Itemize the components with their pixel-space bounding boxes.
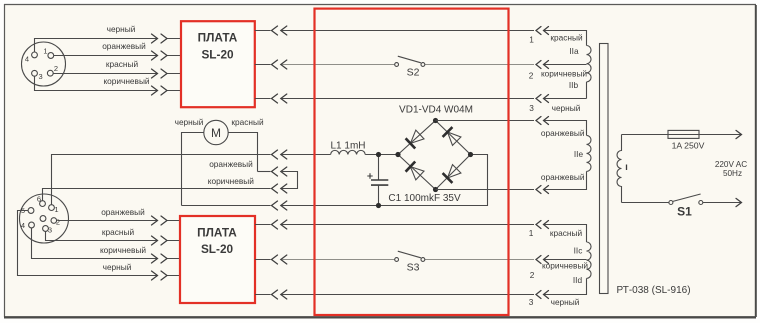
connector pair on AC1 wire xyxy=(536,117,549,125)
transformer T1 windings IIc IId (bottom secondary) xyxy=(587,242,592,278)
svg-text:3: 3 xyxy=(39,72,43,81)
wire pin1 to board1 (orange) xyxy=(54,55,180,57)
junction bridge left node xyxy=(395,152,400,157)
svg-text:красный: красный xyxy=(550,33,583,43)
svg-text:IIe: IIe xyxy=(574,149,584,159)
svg-text:6: 6 xyxy=(37,195,41,204)
connector pair at board2 out1 xyxy=(272,220,287,229)
svg-text:черный: черный xyxy=(552,103,581,113)
power unit outline (red box) xyxy=(315,9,509,315)
jumper wire orange to brown xyxy=(281,172,298,189)
wire bridge bottom node to winding IIe (orange AC2) xyxy=(436,171,587,189)
connector pair at transformer xyxy=(536,221,549,229)
svg-text:IId: IId xyxy=(573,275,583,285)
svg-text:S1: S1 xyxy=(677,205,692,219)
connector pair on brown motor wire xyxy=(272,184,287,193)
switch S3 xyxy=(395,251,425,273)
wire L1 to bridge left node xyxy=(365,154,398,156)
svg-text:IIc: IIc xyxy=(574,246,583,256)
wire DC minus rail xyxy=(182,155,488,206)
svg-text:коричневый: коричневый xyxy=(542,260,588,270)
wire motor left lead down to minus rail xyxy=(182,133,204,206)
svg-text:ПЛАТА: ПЛАТА xyxy=(198,30,238,44)
transformer core xyxy=(600,44,609,294)
junction C1 bottom xyxy=(376,203,381,208)
wire DC plus: pin1 of X2 to L1 and bridge xyxy=(52,155,331,205)
svg-text:красный: красный xyxy=(106,59,139,69)
wire board1 out2 with switch S2 (net 2) xyxy=(255,64,587,66)
svg-text:2: 2 xyxy=(56,218,60,227)
svg-text:оранжевый: оранжевый xyxy=(101,207,145,217)
connector X2 (7-pin DIN, bottom left) xyxy=(20,194,69,243)
svg-text:L1 1mH: L1 1mH xyxy=(330,140,365,151)
svg-text:C1 100mkF 35V: C1 100mkF 35V xyxy=(388,193,461,204)
wire pin3 of X2 to board2 (red) xyxy=(46,231,180,240)
connector pair at transformer xyxy=(536,256,549,264)
connector pair on red wire xyxy=(152,69,168,78)
svg-text:3: 3 xyxy=(529,297,534,307)
svg-text:коричневый: коричневый xyxy=(100,245,146,255)
wire primary top to mains xyxy=(622,134,741,136)
inductor L1 1mH xyxy=(331,150,366,154)
transformer T1 winding IIe (middle secondary) xyxy=(587,135,592,171)
diode VD1 (top-left arm) xyxy=(410,130,424,143)
board U1 ПЛАТА SL-20 (top) xyxy=(181,21,255,107)
wire S1 to mains xyxy=(703,202,741,204)
connector pair on orange wire xyxy=(152,51,168,60)
svg-text:4: 4 xyxy=(21,221,25,230)
wire pin4 to board1 (black) xyxy=(35,39,181,53)
connector pair on orange motor wire xyxy=(272,167,287,176)
svg-text:черный: черный xyxy=(551,297,580,307)
wire pin3 to board1 (brown) xyxy=(35,76,181,90)
svg-text:коричневый: коричневый xyxy=(208,176,254,186)
transformer primary winding I xyxy=(617,135,622,203)
wire pin2 of X2 to board2 (orange) xyxy=(57,220,179,222)
svg-text:оранжевый: оранжевый xyxy=(209,159,253,169)
svg-text:коричневый: коричневый xyxy=(541,69,587,79)
connector pair at transformer wire 3 xyxy=(536,95,549,103)
svg-text:РТ-038 (SL-916): РТ-038 (SL-916) xyxy=(617,285,691,296)
connector pair at board2 out2 xyxy=(272,255,287,264)
diode VD3 (bottom-left arm) xyxy=(410,167,424,180)
wire board2 out2 with switch S3 (net 2) xyxy=(255,259,587,261)
svg-text:ПЛАТА: ПЛАТА xyxy=(197,225,237,239)
svg-text:4: 4 xyxy=(25,55,29,64)
svg-text:2: 2 xyxy=(54,64,58,73)
svg-text:1A 250V: 1A 250V xyxy=(672,141,705,151)
connector X1 (4-pin DIN, top left) xyxy=(22,42,66,86)
wire pin4 of X2 to board2 (brown) xyxy=(32,228,180,259)
wire bridge top node to winding IIe (orange AC1) xyxy=(436,121,587,136)
svg-text:IIb: IIb xyxy=(569,80,579,90)
svg-text:220V AC: 220V AC xyxy=(715,160,747,169)
svg-text:оранжевый: оранжевый xyxy=(541,128,585,138)
arrow mains line top xyxy=(736,130,742,138)
svg-text:S2: S2 xyxy=(407,67,420,79)
wire motor right lead down xyxy=(228,133,257,172)
svg-text:1: 1 xyxy=(43,47,47,56)
wire board2 out1 to winding IIc (red, net 1) xyxy=(255,225,587,243)
connector pair xyxy=(152,254,168,263)
switch S1 xyxy=(669,194,703,219)
svg-text:3: 3 xyxy=(48,226,52,235)
board U2 ПЛАТА SL-20 (bottom) xyxy=(180,216,255,303)
junction C1 top xyxy=(376,152,381,157)
svg-text:черный: черный xyxy=(103,262,132,272)
connector pair xyxy=(152,236,168,245)
connector pair on brown wire xyxy=(152,86,168,95)
svg-text:S3: S3 xyxy=(407,261,420,273)
connector pair on minus rail xyxy=(272,201,287,210)
connector pair at board1 out1 xyxy=(272,26,287,35)
junction bridge top node xyxy=(433,118,438,123)
svg-text:1: 1 xyxy=(54,205,58,214)
svg-text:SL-20: SL-20 xyxy=(201,47,234,61)
diode VD4 (bottom-right arm) xyxy=(448,165,461,178)
svg-text:SL-20: SL-20 xyxy=(201,242,234,256)
svg-text:1: 1 xyxy=(529,34,534,44)
connector pair on DC plus wire xyxy=(272,150,287,159)
svg-text:черный: черный xyxy=(175,117,204,127)
capacitor C1 100mkF 35V xyxy=(367,155,461,206)
wire pin5 of X2 to board2 (black) xyxy=(18,211,180,276)
label I xyxy=(626,165,628,171)
svg-text:красный: красный xyxy=(102,227,135,237)
svg-text:красный: красный xyxy=(550,228,583,238)
wire board2 out3 to winding IId (black, net 3) xyxy=(255,278,587,294)
connector pair at board2 out3 xyxy=(272,290,287,299)
wire board1 out1 to winding IIa (red, net 1) xyxy=(255,31,587,46)
motor M1 xyxy=(204,120,228,144)
svg-text:2: 2 xyxy=(529,71,534,81)
fuse F1 xyxy=(668,130,699,138)
svg-text:черный: черный xyxy=(107,24,136,34)
connector pair at board1 out3 xyxy=(272,94,287,103)
connector pair at transformer wire 2 xyxy=(536,61,549,69)
transformer T1 windings IIa IIb (top secondary) xyxy=(587,46,592,99)
svg-text:2: 2 xyxy=(530,270,535,280)
wire board1 out3 to winding IIb (black, net 3) xyxy=(255,98,587,100)
svg-text:1: 1 xyxy=(529,228,534,238)
connector pair xyxy=(152,216,168,225)
arrow mains line bottom xyxy=(736,198,742,206)
svg-text:оранжевый: оранжевый xyxy=(541,172,585,182)
svg-text:M: M xyxy=(211,126,221,140)
wire pin2 to board1 (red) xyxy=(53,73,180,75)
wire motor orange stub to jumper xyxy=(258,171,271,173)
bridge diamond wires xyxy=(398,121,471,190)
svg-text:красный: красный xyxy=(231,117,264,127)
connector pair xyxy=(152,271,168,280)
wire brown to pin6 of X2 xyxy=(43,189,271,201)
junction bridge right node xyxy=(468,152,473,157)
svg-text:коричневый: коричневый xyxy=(103,76,149,86)
wire primary bottom to S1 xyxy=(622,202,669,204)
connector pair on AC2 wire xyxy=(536,186,549,194)
switch S2 xyxy=(395,56,425,78)
svg-text:50Hz: 50Hz xyxy=(723,169,742,178)
connector pair at board1 out2 xyxy=(272,60,287,69)
connector pair on black wire xyxy=(152,34,168,43)
diode VD2 (top-right arm) xyxy=(448,132,461,145)
junction bridge bottom node xyxy=(433,187,438,192)
connector pair at transformer xyxy=(536,291,549,299)
svg-text:IIa: IIa xyxy=(569,46,579,56)
svg-text:оранжевый: оранжевый xyxy=(102,41,146,51)
svg-text:3: 3 xyxy=(529,103,534,113)
connector pair at transformer wire 1 xyxy=(536,27,549,35)
svg-text:VD1-VD4 W04M: VD1-VD4 W04M xyxy=(399,105,473,116)
